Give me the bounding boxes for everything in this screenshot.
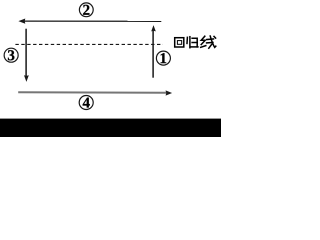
wire: dashed tropic line [15,43,163,45]
node 3: circled label ③ [4,48,18,62]
char 线 [201,36,205,44]
wire: top horizontal flow line [24,20,162,22]
black bottom bar [0,119,221,137]
arrowhead: bottom line pointing right [166,90,173,95]
wire: bottom horizontal flow line (gray) [18,91,166,94]
wire: left vertical flow line [25,29,27,77]
char 归 [186,37,188,43]
node 2: circled label ② [79,3,93,17]
label: 回归线 (hand-drawn CJK strokes) [175,36,216,48]
node 4: circled label ④ [79,96,93,110]
arrowhead: right line pointing up [151,25,156,31]
wire: right vertical flow line [152,30,154,78]
arrowhead: left line pointing down [24,75,29,82]
char 回 [175,38,184,47]
node 1: circled label ① [156,51,170,65]
arrowhead: top line pointing left [18,19,25,24]
